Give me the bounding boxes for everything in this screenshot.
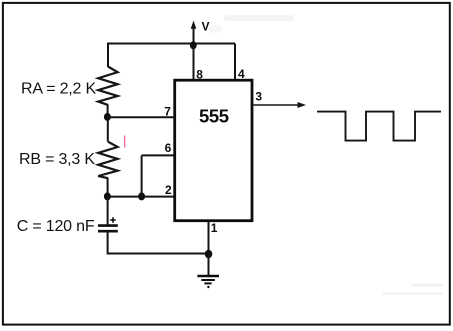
pink mark	[124, 136, 126, 148]
IC U1 555 timer body	[175, 80, 252, 221]
svg-text:6: 6	[165, 141, 172, 155]
wire: pin 4 drop to 555 top	[234, 44, 236, 81]
wire: RA bottom to node 7	[107, 105, 109, 118]
node: RB/C junction (pin 2 rail)	[104, 192, 111, 200]
wire: node 7 down to RB top	[107, 117, 109, 142]
wire: node down to ground symbol	[208, 254, 210, 276]
wire: pin 6 to 555	[142, 154, 176, 156]
wire: pin 8 drop from supply node to 555 top	[193, 44, 195, 81]
svg-text:8: 8	[196, 68, 203, 82]
svg-text:4: 4	[238, 67, 245, 81]
wire: pin 7 to 555	[108, 116, 177, 118]
wire: node 2 down to capacitor	[107, 197, 109, 225]
node: ground junction	[205, 250, 213, 259]
node: RA/RB junction (pin 7)	[104, 113, 111, 121]
power V arrow	[191, 20, 210, 46]
capacitor C	[98, 217, 118, 231]
svg-text:3: 3	[255, 90, 262, 104]
svg-text:RA = 2,2 K: RA = 2,2 K	[21, 80, 96, 97]
output square wave	[317, 112, 441, 141]
wire: RB bottom to node 2	[107, 178, 109, 197]
wire: 555 pin 1 down	[208, 221, 210, 254]
svg-text:V: V	[202, 20, 210, 34]
smudge artifacts	[208, 15, 443, 295]
svg-text:C = 120 nF: C = 120 nF	[17, 218, 95, 235]
wire: top supply rail from RA top to pin 4 drop	[108, 44, 235, 68]
svg-text:1: 1	[211, 221, 218, 235]
wire: capacitor bottom to ground rail	[108, 232, 209, 253]
wire: pin 2 rail to 555	[108, 196, 177, 198]
node: pin 6 drop junction	[138, 192, 145, 200]
svg-text:2: 2	[165, 183, 172, 197]
resistor RB	[98, 142, 117, 179]
svg-text:7: 7	[164, 104, 171, 118]
wire: output pin 3 arrow	[254, 102, 307, 108]
svg-text:555: 555	[199, 106, 229, 127]
wire: pin 6 vertical drop	[141, 155, 143, 196]
node: supply junction	[190, 41, 197, 49]
resistor RA	[98, 67, 117, 105]
svg-text:RB = 3,3 K: RB = 3,3 K	[19, 151, 95, 168]
ground	[197, 276, 219, 288]
